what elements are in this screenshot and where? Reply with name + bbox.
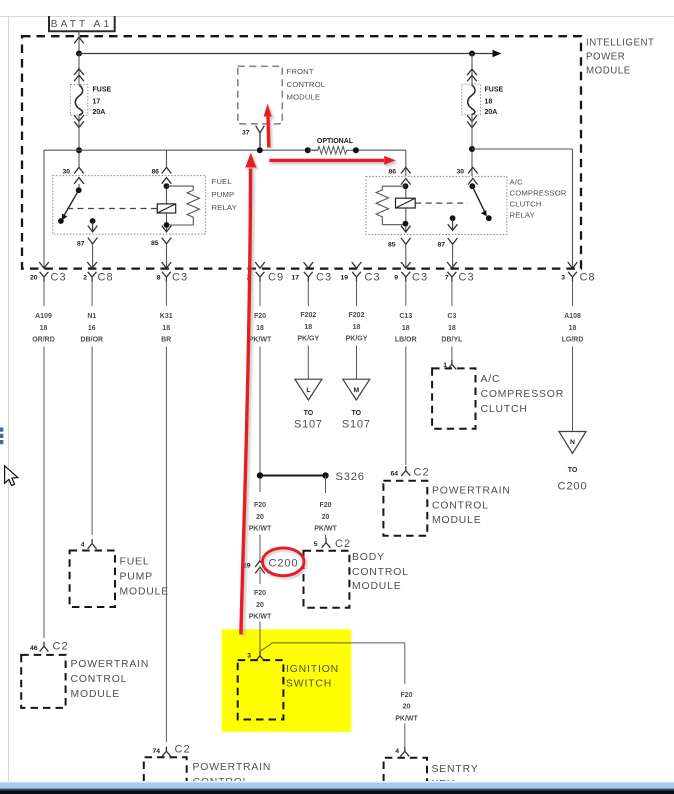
svg-text:86: 86: [388, 169, 396, 176]
connector pin 19 C3: [340, 262, 380, 284]
wire label F20 20 PK/WT (sentry key): [395, 692, 418, 722]
svg-text:A108: A108: [564, 313, 581, 320]
red annotation shadow copies: [243, 106, 398, 636]
pin 85 down arrow inside box (A/C relay): [401, 226, 411, 232]
double chevrons above fuse 17: [74, 69, 84, 75]
node: S326 splice dot right: [322, 472, 328, 478]
label: POWERTRAIN CONTROL MODULE (64 C2): [432, 486, 511, 527]
connector chevron at IPM border under BATT A1: [74, 37, 84, 43]
svg-text:17: 17: [93, 99, 101, 106]
switch common dot (fuel relay): [76, 187, 82, 193]
red arrow pointing up into Front Control Module: [264, 104, 272, 148]
svg-text:MODULE: MODULE: [71, 689, 121, 700]
svg-text:F20: F20: [400, 692, 412, 699]
node: junction dot pin37 / bus: [257, 147, 263, 153]
svg-text:POWER: POWER: [586, 52, 625, 63]
svg-text:FUEL: FUEL: [212, 177, 233, 186]
wire pin30 stub inside (A/C relay): [472, 185, 474, 187]
connector pin 20 C3: [30, 262, 67, 284]
fuel pump relay box: [53, 176, 206, 235]
wire S326 right branch down: [325, 476, 327, 494]
wire pin 87 to border (A/C relay): [452, 244, 454, 268]
svg-text:C2: C2: [175, 744, 191, 756]
svg-text:30: 30: [456, 169, 464, 176]
svg-text:F20: F20: [319, 502, 331, 509]
wire branch to sentry key: vertical drop: [404, 643, 406, 684]
ignition switch box: [238, 660, 284, 719]
resistor shunt (fuel relay): [167, 186, 200, 225]
svg-text:BODY: BODY: [352, 552, 385, 563]
svg-text:FUSE: FUSE: [485, 87, 504, 94]
connector pin 8 C3: [157, 262, 188, 284]
svg-text:74: 74: [152, 748, 160, 755]
resistor: OPTIONAL inline: [308, 146, 356, 154]
svg-text:30: 30: [62, 169, 70, 176]
svg-text:20: 20: [256, 514, 264, 521]
connector pin 74 C2: [152, 744, 190, 757]
wire label F20 20 PK/WT (left): [249, 502, 272, 533]
svg-text:18: 18: [448, 325, 456, 332]
svg-text:IGNITION: IGNITION: [286, 664, 339, 675]
svg-text:POWERTRAIN: POWERTRAIN: [193, 762, 272, 773]
svg-text:87: 87: [437, 242, 445, 249]
connector pin 4 (sentry key): [395, 747, 409, 757]
body control module box: [304, 551, 350, 608]
wire label F202 18 PK/GY (left): [297, 312, 319, 342]
svg-text:L: L: [306, 387, 310, 394]
svg-text:C2: C2: [335, 538, 351, 550]
connector pin 64 C2: [390, 466, 429, 479]
connector pin 9 C3: [394, 262, 428, 284]
svg-text:LG/RD: LG/RD: [562, 336, 584, 343]
svg-text:C200: C200: [558, 481, 588, 493]
svg-text:20: 20: [403, 704, 411, 711]
svg-text:87: 87: [77, 241, 85, 248]
svg-text:CONTROL: CONTROL: [287, 80, 326, 89]
wire fuse17 to relay bus: [78, 115, 80, 167]
wire: A108 drop to pin 3 C8: [572, 149, 574, 268]
pin 87 exit Y below box (A/C relay): [448, 238, 458, 244]
svg-text:MODULE: MODULE: [432, 515, 482, 526]
svg-text:COMPRESSOR: COMPRESSOR: [481, 389, 565, 400]
connector Y at FCM pin 37: [256, 126, 265, 150]
node: S326 splice dot left: [257, 472, 263, 478]
svg-text:5: 5: [314, 541, 318, 548]
wire C13 lower to PCM 64: [405, 347, 407, 466]
wire A108 lower to N: [572, 347, 574, 432]
svg-text:CONTROL: CONTROL: [432, 500, 489, 511]
svg-text:F202: F202: [349, 312, 365, 319]
svg-text:RELAY: RELAY: [510, 210, 535, 219]
svg-text:86: 86: [151, 169, 159, 176]
label: FUEL PUMP RELAY: [212, 177, 237, 212]
svg-text:LB/OR: LB/OR: [395, 336, 417, 343]
wire F202 17 upper: [307, 282, 309, 306]
svg-text:C2: C2: [414, 467, 430, 479]
switch throw contact dot (fuel relay): [58, 218, 64, 224]
wire label K31 18 BR: [160, 313, 173, 343]
powertrain control module box (64 C2): [383, 481, 427, 536]
node: coil bottom dot (A/C relay): [405, 208, 407, 232]
svg-text:K31: K31: [160, 313, 173, 320]
window pane top edge line: [0, 16, 674, 18]
wire K31 upper: [165, 282, 167, 306]
powertrain control module box (74 C2, bottom): [144, 757, 187, 781]
pin 85 exit Y below box: [162, 238, 172, 244]
svg-text:A109: A109: [35, 313, 52, 320]
svg-text:C3: C3: [459, 272, 475, 284]
svg-text:20A: 20A: [485, 109, 498, 116]
svg-text:3: 3: [247, 653, 251, 660]
bottom window bar: [0, 781, 674, 794]
node: coil top dot (fuel relay): [166, 184, 168, 204]
svg-text:CLUTCH: CLUTCH: [510, 199, 542, 208]
Intelligent Power Module dashed boundary: [22, 36, 581, 268]
pin 30 chevrons (fuel relay): [74, 167, 84, 173]
switch common dot (A/C relay): [469, 183, 475, 189]
svg-text:C2: C2: [53, 641, 69, 653]
svg-text:C3: C3: [51, 272, 67, 284]
wire C3 lower to A/C clutch: [451, 347, 453, 360]
A/C compressor clutch connector pin 1: [443, 360, 456, 370]
svg-text:C3: C3: [412, 272, 428, 284]
svg-text:TO: TO: [351, 410, 361, 417]
pin 86 chevrons (fuel relay): [162, 167, 172, 173]
wire label A108 18 LG/RD: [562, 313, 584, 343]
wire BATT A1 down to junction: [78, 32, 80, 54]
blue toolbar sliver glyphs at left edge: [0, 428, 3, 445]
svg-text:PK/WT: PK/WT: [249, 614, 272, 621]
svg-text:S326: S326: [336, 471, 365, 483]
wire label F20 20 PK/WT (right): [314, 502, 337, 533]
svg-text:MODULE: MODULE: [352, 581, 402, 592]
svg-text:M: M: [353, 387, 359, 394]
svg-text:DB/OR: DB/OR: [81, 336, 104, 343]
wire K31 lower to PCM 74: [165, 347, 167, 743]
powertrain control module box (lower left): [21, 655, 65, 708]
svg-text:PK/GY: PK/GY: [346, 335, 368, 342]
svg-text:FUEL: FUEL: [120, 557, 150, 568]
wire F202 19 upper: [356, 282, 358, 306]
svg-text:TO: TO: [304, 410, 314, 417]
off-page symbol triangle N to C200: [558, 432, 588, 493]
svg-text:POWERTRAIN: POWERTRAIN: [432, 486, 511, 497]
wire label F20 18 PK/WT: [249, 313, 272, 343]
wire down to ignition pin 3: [259, 622, 261, 652]
label: FUEL PUMP MODULE: [120, 557, 170, 598]
wire fuse18 down to A/C relay pin 30: [471, 115, 473, 176]
svg-text:46: 46: [30, 645, 38, 652]
svg-text:C3: C3: [316, 272, 332, 284]
A/C compressor clutch box: [432, 368, 475, 428]
svg-text:S107: S107: [342, 419, 371, 431]
wire pin 85 to border: [166, 244, 168, 268]
svg-text:18: 18: [256, 325, 264, 332]
wire: A108 branch to right: [472, 148, 573, 150]
window pane left edge line: [8, 17, 10, 783]
red long arrow from ignition switch up to pin 37 junction: [241, 153, 257, 635]
switch arm with arrowhead (fuel relay): [64, 190, 79, 216]
switch arm with arrowhead (A/C relay): [472, 186, 485, 212]
pin 85 down arrow inside box: [162, 226, 172, 232]
svg-text:F202: F202: [300, 312, 316, 319]
connector pin 2 C9: [247, 262, 284, 284]
svg-text:FRONT: FRONT: [287, 67, 314, 76]
svg-text:18: 18: [353, 324, 361, 331]
red ellipse around C200: [262, 548, 304, 576]
wire F202 17 lower to L: [307, 346, 309, 380]
mouse cursor: [5, 466, 18, 486]
wire pin 85 to border (A/C relay): [405, 244, 407, 268]
svg-text:C13: C13: [399, 313, 412, 320]
connector pin 5 C2: [314, 535, 351, 550]
node: fuse18 tap dot on bus: [469, 51, 475, 57]
wire F202 19 lower to M: [356, 346, 358, 380]
ground symbol triangle M to S107: [342, 379, 371, 430]
wire: horizontal bus y=150: [44, 149, 318, 151]
node: junction dot optional right: [353, 147, 359, 153]
svg-text:C8: C8: [580, 272, 596, 284]
pin 87 down arrow inside box: [92, 221, 94, 232]
relay coil (fuel relay): [157, 204, 175, 213]
wire C3 upper: [451, 282, 453, 306]
wire pin30 stub inside: [78, 184, 80, 190]
svg-text:FUSE: FUSE: [93, 87, 112, 94]
red arrow pointing right to A/C relay pin 86: [269, 156, 396, 165]
wire to C200 connector: [259, 535, 261, 561]
wire pin 87 to border: [92, 244, 94, 268]
node: junction dot fuse18 / A108 branch: [469, 146, 475, 152]
svg-text:TO: TO: [568, 467, 578, 474]
yellow highlight over ignition switch: [222, 629, 352, 732]
svg-text:F20: F20: [254, 590, 266, 597]
wire C13 upper: [405, 282, 407, 306]
wire bus to pin 86 (fuel relay): [166, 150, 168, 167]
svg-text:CONTROL: CONTROL: [71, 674, 128, 685]
svg-text:8: 8: [157, 275, 161, 282]
svg-text:2: 2: [83, 275, 87, 282]
svg-text:S107: S107: [294, 419, 323, 431]
wire A108 upper: [572, 282, 574, 306]
wire label F20 20 PK/WT (below C200): [249, 590, 272, 621]
wire down from B+ bus to fuse 18: [471, 54, 473, 85]
svg-text:C8: C8: [98, 272, 114, 284]
Front Control Module dashed box: [238, 66, 282, 124]
svg-text:20: 20: [256, 602, 264, 609]
svg-text:37: 37: [242, 130, 250, 137]
svg-text:N: N: [570, 439, 575, 446]
connector pin 2 C8: [83, 262, 113, 284]
svg-text:CONTROL: CONTROL: [352, 567, 409, 578]
sentry key module box: [384, 758, 427, 782]
wire label C13 18 LB/OR: [395, 313, 417, 343]
svg-text:18: 18: [402, 325, 410, 332]
wire to sentry key connector: [404, 724, 406, 747]
svg-text:20A: 20A: [93, 109, 106, 116]
svg-text:PK/WT: PK/WT: [314, 526, 337, 533]
wire down to fuse 17: [78, 54, 80, 85]
A/C compressor clutch relay box: [366, 176, 507, 234]
svg-text:PK/GY: PK/GY: [297, 335, 319, 342]
svg-text:PK/WT: PK/WT: [249, 526, 272, 533]
connector pin 4 (fuel pump module): [81, 539, 97, 549]
label: A/C COMPRESSOR CLUTCH: [481, 374, 565, 415]
wire below C200: [259, 570, 261, 584]
svg-text:85: 85: [388, 242, 396, 249]
double chevrons below fuse 17: [74, 115, 84, 121]
node: junction dot fuse17 / horizontal bus: [76, 147, 82, 153]
svg-text:C3: C3: [172, 272, 188, 284]
connector pin 3 (ignition switch): [247, 651, 264, 661]
label: POWERTRAIN CONTROL MODULE (lower left): [71, 659, 150, 700]
wire: S326 splice bus: [260, 475, 326, 477]
svg-text:F20: F20: [254, 502, 266, 509]
pin 85 exit Y below box (A/C relay): [401, 238, 411, 244]
wire branch to sentry key: diagonal: [261, 643, 272, 651]
svg-text:OPTIONAL: OPTIONAL: [317, 138, 354, 145]
svg-text:F20: F20: [254, 313, 266, 320]
svg-text:3: 3: [561, 275, 565, 282]
pin 87 exit Y below box: [88, 238, 98, 244]
svg-text:18: 18: [304, 324, 312, 331]
label: POWERTRAIN CONTROL (bottom): [193, 762, 272, 788]
connector pin 29 C200: [243, 558, 299, 574]
connector pin 7 C3: [445, 262, 475, 284]
wire label N1 16 DB/OR: [81, 313, 104, 343]
switch throw contact dot (A/C relay): [486, 215, 492, 221]
label: A/C COMPRESSOR CLUTCH RELAY: [510, 177, 567, 219]
svg-text:SENTRY: SENTRY: [432, 764, 479, 775]
label: FRONT CONTROL MODULE: [287, 67, 326, 101]
node: coil bottom dot (fuel relay): [166, 213, 168, 232]
svg-text:POWERTRAIN: POWERTRAIN: [71, 659, 150, 670]
pin 86 chevrons (A/C relay): [401, 167, 411, 173]
wire: top B+ bus with arrow to right: [79, 53, 494, 55]
node: coil top dot (A/C relay): [405, 185, 407, 199]
svg-text:85: 85: [151, 240, 159, 247]
relay actuation dashed link (A/C relay): [415, 202, 468, 204]
svg-text:C9: C9: [268, 272, 284, 284]
double chevrons above fuse 18: [467, 69, 477, 75]
relay coil (A/C relay): [396, 198, 416, 208]
svg-text:A/C: A/C: [510, 177, 524, 186]
wire A109 lower to PCM: [43, 347, 45, 639]
connector pin 3 C8: [561, 262, 595, 284]
resistor shunt (A/C relay): [376, 186, 405, 225]
wire: left drop to pin 20 C3: [43, 150, 45, 268]
svg-text:C3: C3: [365, 272, 381, 284]
svg-text:MODULE: MODULE: [120, 587, 170, 598]
svg-text:MODULE: MODULE: [287, 92, 321, 101]
wire N1 lower to fuel pump module: [91, 347, 93, 536]
label: INTELLIGENT POWER MODULE: [586, 38, 655, 77]
pin 87 contact dot (A/C relay): [450, 215, 456, 221]
svg-text:A/C: A/C: [481, 374, 501, 385]
svg-text:PUMP: PUMP: [212, 190, 235, 199]
pin 87 down arrow inside box (A/C relay): [452, 218, 454, 230]
wire branch to sentry key: horizontal: [272, 642, 404, 644]
node: B+ junction dot: [76, 51, 82, 57]
svg-text:7: 7: [445, 275, 449, 282]
svg-text:20: 20: [30, 275, 38, 282]
BATT A1 box: [49, 16, 115, 31]
svg-text:18: 18: [569, 325, 577, 332]
svg-text:SWITCH: SWITCH: [286, 679, 332, 690]
wire to BCM pin 5: [325, 534, 327, 537]
wire label A109 18 OR/RD: [32, 313, 55, 343]
connector pin 17 C3: [291, 262, 332, 284]
svg-text:9: 9: [394, 275, 398, 282]
wire F20 upper: [259, 282, 261, 306]
svg-text:RELAY: RELAY: [212, 203, 237, 212]
wire F20 below S326 left: [259, 478, 261, 492]
svg-text:20: 20: [322, 514, 330, 521]
svg-text:18: 18: [485, 99, 493, 106]
svg-text:4: 4: [81, 542, 85, 549]
svg-text:PUMP: PUMP: [120, 572, 153, 583]
svg-text:MODULE: MODULE: [586, 66, 631, 77]
pin 30 chevrons (A/C relay): [468, 167, 478, 173]
svg-text:BATT A1: BATT A1: [51, 19, 113, 30]
ground symbol triangle L to S107: [294, 379, 323, 430]
wire N1 upper: [91, 282, 93, 306]
wire F20 lower to S326: [259, 347, 261, 479]
label: BODY CONTROL MODULE: [352, 552, 409, 592]
svg-text:OR/RD: OR/RD: [32, 336, 55, 343]
svg-text:18: 18: [40, 325, 48, 332]
fuel pump module box: [70, 551, 115, 608]
svg-text:INTELLIGENT: INTELLIGENT: [586, 38, 655, 49]
wire: right drop to A/C relay pin 86: [405, 150, 407, 176]
svg-text:CLUTCH: CLUTCH: [481, 404, 528, 415]
label: IGNITION SWITCH: [286, 664, 339, 690]
wire A109 upper: [43, 282, 45, 306]
pin 87 contact dot (fuel relay): [90, 218, 96, 224]
double chevrons below fuse 18: [467, 115, 477, 121]
svg-text:BR: BR: [161, 336, 171, 343]
connector pin 46 C2: [30, 641, 69, 653]
svg-text:4: 4: [395, 748, 399, 755]
svg-text:18: 18: [162, 325, 170, 332]
svg-text:N1: N1: [87, 313, 96, 320]
svg-text:DB/YL: DB/YL: [441, 336, 463, 343]
svg-text:COMPRESSOR: COMPRESSOR: [510, 188, 567, 197]
svg-text:17: 17: [291, 275, 299, 282]
svg-text:16: 16: [88, 325, 96, 332]
wire label C3 18 DB/YL: [441, 313, 463, 343]
fuse F17 20A: [70, 85, 111, 117]
fuse F18 20A: [462, 84, 504, 116]
svg-text:C200: C200: [269, 558, 299, 570]
label: SENTRY KEY: [432, 764, 479, 790]
svg-text:64: 64: [390, 471, 398, 478]
svg-text:PK/WT: PK/WT: [395, 715, 418, 722]
relay actuation dashed link (fuel relay): [67, 208, 158, 210]
svg-text:C3: C3: [447, 313, 456, 320]
svg-text:19: 19: [340, 275, 348, 282]
wire label F202 18 PK/GY (right): [346, 312, 368, 342]
node: junction dot optional left: [305, 147, 311, 153]
